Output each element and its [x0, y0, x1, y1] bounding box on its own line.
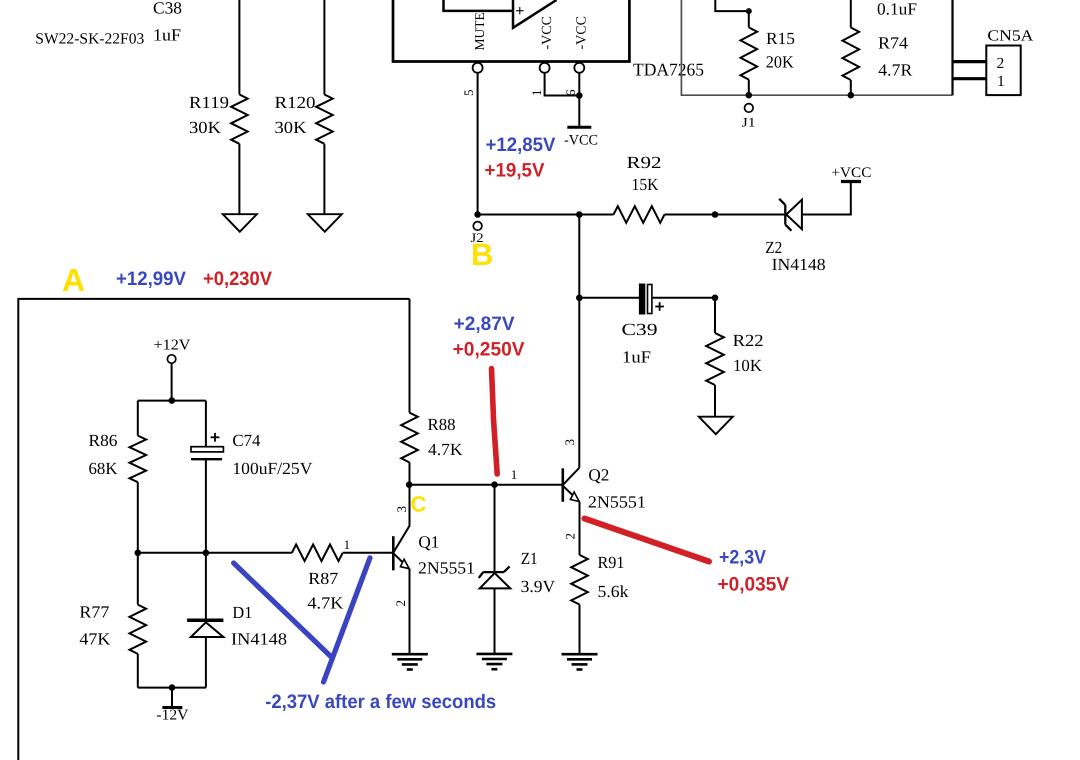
wire	[343, 552, 393, 554]
wire	[137, 482, 139, 553]
junction	[203, 550, 210, 557]
annotation red pointer line	[585, 519, 710, 562]
svg-text:100uF/25V: 100uF/25V	[232, 459, 313, 478]
svg-text:C39: C39	[622, 320, 658, 339]
resistor R77	[137, 553, 139, 605]
op-amp U1 TDA7265 package outline	[393, 0, 629, 62]
node J1 terminal	[745, 104, 754, 113]
junction	[848, 92, 855, 99]
junction	[746, 92, 753, 99]
pin 1	[540, 63, 550, 73]
wire	[138, 400, 206, 402]
resistor R119	[231, 95, 248, 144]
svg-text:1: 1	[529, 90, 544, 97]
svg-text:4.7K: 4.7K	[307, 594, 344, 613]
diode D1	[205, 553, 207, 620]
svg-text:2: 2	[393, 600, 408, 607]
wire	[578, 215, 580, 468]
wire	[137, 654, 139, 688]
wire	[953, 77, 987, 80]
junction	[746, 8, 752, 14]
junction	[712, 211, 719, 218]
zener Z2	[784, 205, 786, 225]
junction J2	[474, 211, 481, 218]
ground	[392, 653, 428, 656]
svg-text:C38: C38	[153, 0, 182, 18]
svg-text:1: 1	[511, 467, 518, 482]
junction C	[406, 481, 413, 488]
junction	[169, 684, 176, 691]
ground	[699, 417, 733, 435]
svg-text:-VCC: -VCC	[575, 16, 590, 49]
svg-text:+12,99V: +12,99V	[116, 268, 186, 290]
svg-text:10K: 10K	[733, 356, 763, 375]
svg-text:A: A	[62, 262, 85, 298]
wire	[138, 552, 292, 554]
-VCC power symbol	[567, 126, 591, 129]
svg-text:R88: R88	[428, 415, 456, 434]
wire	[953, 60, 987, 63]
wire	[478, 214, 614, 216]
resistor R120	[316, 95, 333, 144]
capacitor C74	[205, 401, 207, 447]
annotation blue pointer line	[234, 563, 333, 658]
svg-text:C74: C74	[232, 431, 260, 450]
svg-text:J1: J1	[742, 115, 756, 130]
wire	[238, 144, 240, 214]
resistor R91	[571, 555, 588, 605]
svg-text:+19,5V: +19,5V	[485, 160, 545, 182]
svg-text:15K: 15K	[632, 175, 660, 194]
svg-text:C: C	[411, 492, 427, 517]
svg-text:+VCC: +VCC	[831, 165, 871, 181]
svg-text:47K: 47K	[79, 630, 111, 649]
junction	[712, 295, 719, 302]
wire	[748, 80, 750, 96]
svg-text:R86: R86	[89, 431, 118, 450]
svg-text:R91: R91	[598, 553, 625, 572]
svg-text:1: 1	[997, 73, 1005, 90]
svg-text:+0,035V: +0,035V	[718, 574, 790, 596]
svg-text:3: 3	[562, 439, 577, 446]
svg-text:B: B	[471, 237, 493, 272]
svg-text:SW22-SK-22F03: SW22-SK-22F03	[35, 31, 144, 48]
svg-text:Q2: Q2	[588, 466, 609, 485]
svg-text:2: 2	[997, 55, 1005, 72]
wire	[409, 463, 411, 485]
wire	[714, 385, 716, 417]
resistor R15	[741, 27, 758, 79]
svg-text:Q1: Q1	[418, 533, 439, 552]
junction	[576, 92, 583, 99]
svg-text:-VCC: -VCC	[564, 133, 598, 149]
wire	[748, 11, 750, 27]
wire	[850, 80, 852, 95]
junction	[135, 550, 142, 557]
svg-text:R77: R77	[79, 603, 110, 622]
svg-text:TDA7265: TDA7265	[633, 60, 704, 80]
svg-text:CN5A: CN5A	[987, 28, 1034, 45]
wire	[579, 502, 581, 555]
svg-text:Z1: Z1	[521, 549, 538, 568]
resistor R22	[706, 333, 724, 385]
svg-text:R120: R120	[275, 93, 316, 112]
zener Z1	[494, 485, 496, 572]
junction	[169, 397, 176, 404]
svg-text:+2,3V: +2,3V	[719, 547, 766, 569]
wire	[409, 484, 563, 486]
junction	[491, 481, 498, 488]
wire	[578, 73, 580, 126]
wire	[579, 605, 581, 655]
svg-text:-12V: -12V	[156, 708, 188, 724]
svg-text:-2,37V after a few seconds: -2,37V after a few seconds	[265, 691, 496, 713]
resistor R92	[614, 206, 665, 223]
wire	[545, 73, 580, 96]
wire	[323, 0, 325, 95]
annotation red pointer line	[492, 369, 498, 475]
transistor Q1	[392, 536, 395, 570]
svg-text:4.7K: 4.7K	[428, 440, 463, 459]
annotation blue pointer line	[324, 558, 371, 682]
pin 5	[473, 63, 483, 73]
svg-text:2N5551: 2N5551	[418, 559, 475, 578]
ground	[223, 214, 257, 232]
svg-text:20K: 20K	[766, 53, 795, 72]
ground	[308, 214, 342, 232]
svg-text:MUTE: MUTE	[472, 12, 487, 50]
block A outline	[18, 299, 409, 760]
svg-text:+0,230V: +0,230V	[203, 268, 272, 290]
ground	[476, 653, 512, 656]
svg-text:R119: R119	[189, 93, 229, 112]
resistor R87	[292, 545, 343, 562]
resistor R88	[401, 413, 418, 463]
wire	[323, 144, 325, 214]
svg-text:68K: 68K	[89, 459, 119, 478]
svg-text:-VCC: -VCC	[540, 16, 555, 49]
svg-text:0.1uF: 0.1uF	[877, 0, 917, 19]
wire	[802, 183, 851, 215]
svg-text:R15: R15	[766, 29, 795, 48]
-12V supply	[171, 688, 173, 708]
wire	[409, 299, 411, 413]
svg-text:5: 5	[461, 90, 476, 97]
svg-text:IN4148: IN4148	[772, 255, 826, 274]
wire	[238, 0, 240, 95]
amplifier section box	[681, 0, 952, 95]
wire	[137, 401, 139, 436]
svg-text:+2,87V: +2,87V	[454, 313, 515, 335]
wire	[138, 687, 206, 689]
svg-text:D1: D1	[232, 603, 252, 622]
svg-text:30K: 30K	[189, 118, 222, 137]
resistor R74	[843, 28, 860, 81]
junction	[576, 211, 583, 218]
svg-text:+12V: +12V	[154, 338, 191, 354]
svg-text:+12,85V: +12,85V	[486, 134, 556, 156]
+VCC power symbol	[841, 180, 861, 183]
svg-text:2: 2	[562, 533, 577, 540]
node J2 terminal	[473, 222, 482, 231]
wire	[850, 0, 852, 28]
junction	[576, 295, 583, 302]
wire	[715, 0, 749, 11]
svg-text:4.7R: 4.7R	[878, 61, 913, 80]
svg-text:+0,250V: +0,250V	[453, 338, 525, 360]
svg-text:2N5551: 2N5551	[588, 493, 646, 512]
svg-text:30K: 30K	[275, 118, 308, 137]
svg-text:1: 1	[344, 537, 351, 552]
svg-text:5.6k: 5.6k	[598, 582, 630, 601]
svg-text:+: +	[515, 3, 524, 20]
svg-text:R22: R22	[733, 331, 764, 350]
svg-text:R92: R92	[627, 153, 662, 172]
svg-text:IN4148: IN4148	[231, 630, 287, 649]
wire	[714, 298, 716, 333]
svg-text:3.9V: 3.9V	[521, 577, 556, 596]
svg-text:R74: R74	[878, 34, 909, 53]
wire	[477, 73, 479, 215]
pin 6	[574, 63, 584, 73]
svg-text:1uF: 1uF	[153, 26, 181, 45]
wire	[665, 214, 786, 216]
ground	[562, 653, 598, 656]
wire	[409, 569, 411, 654]
transistor Q2	[561, 468, 564, 502]
svg-text:R87: R87	[308, 569, 339, 588]
svg-text:1uF: 1uF	[622, 348, 651, 367]
resistor R86	[130, 436, 147, 483]
svg-text:3: 3	[394, 506, 409, 513]
capacitor C39	[579, 297, 640, 299]
